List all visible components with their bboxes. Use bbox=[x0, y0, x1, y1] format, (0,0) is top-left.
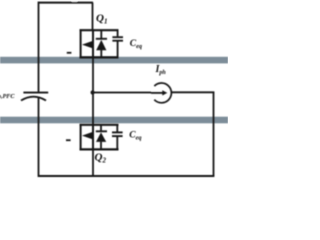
current source I_ph bbox=[151, 83, 171, 103]
wire bottom return bbox=[38, 175, 214, 177]
wire right rail bbox=[213, 92, 215, 176]
svg-text:Iph: Iph bbox=[155, 64, 167, 76]
capacitor C_o,PFC bbox=[21, 93, 48, 101]
svg-text:Ceq: Ceq bbox=[129, 130, 141, 141]
diode D1 body diode bbox=[96, 30, 107, 57]
diode D2 body diode bbox=[96, 125, 107, 150]
wire Q2 source bbox=[92, 149, 94, 176]
svg-text:Q1: Q1 bbox=[96, 13, 107, 26]
svg-text:Q2: Q2 bbox=[95, 152, 107, 165]
wire midpoint rail bbox=[92, 57, 94, 125]
gray bus bar bottom bbox=[0, 117, 228, 124]
capacitor C_eq bottom bbox=[112, 125, 123, 150]
svg-text:Co,PFC: Co,PFC bbox=[0, 89, 15, 100]
node midpoint junction bbox=[91, 90, 95, 94]
capacitor C_eq top bbox=[112, 30, 123, 57]
wire current source to right rail bbox=[171, 91, 214, 93]
wire Q1 drain bbox=[92, 3, 94, 30]
top wire joint notch bbox=[72, 0, 77, 2]
wire left rail upper bbox=[38, 2, 40, 93]
wire left rail lower bbox=[38, 98, 40, 177]
gray bus bar top bbox=[0, 57, 228, 64]
transistor Q2 bbox=[66, 124, 119, 150]
svg-text:Ceq: Ceq bbox=[130, 39, 142, 50]
wire top bbox=[38, 2, 93, 4]
transistor Q1 bbox=[67, 29, 119, 58]
wire midpoint to current source bbox=[93, 92, 151, 94]
